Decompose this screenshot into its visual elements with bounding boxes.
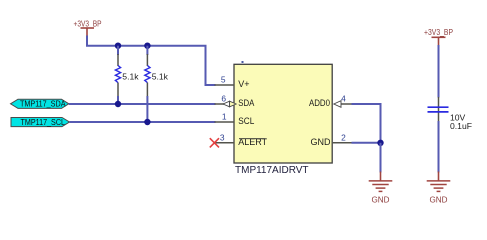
svg-text:1: 1 bbox=[222, 112, 227, 122]
pin 4 ADD0 bbox=[309, 94, 352, 109]
wire GND pin to junction bbox=[352, 142, 381, 144]
svg-text:GND: GND bbox=[430, 195, 448, 205]
wire SDA net to pin 6 bbox=[69, 103, 216, 105]
wire capacitor down to ground bbox=[438, 121, 440, 173]
wire +3V3_BP right down to capacitor bbox=[438, 45, 440, 98]
wire SCL net to pin 1 bbox=[70, 121, 216, 123]
svg-text:TMP117_SDA: TMP117_SDA bbox=[20, 99, 66, 109]
wire R1 top lead stub bbox=[117, 46, 119, 55]
pin 3 ALERT bbox=[215, 133, 268, 148]
junction ADD0/GND bbox=[377, 140, 383, 146]
svg-text:GND: GND bbox=[372, 195, 390, 205]
wire top rail to V+ bbox=[86, 46, 216, 85]
power +3V3_BP left bbox=[74, 19, 102, 36]
ground GND right bbox=[427, 172, 451, 205]
svg-text:GND: GND bbox=[311, 137, 332, 147]
svg-text:SCL: SCL bbox=[238, 116, 254, 126]
no-connect X on ALERT pin bbox=[210, 138, 219, 147]
svg-text:3: 3 bbox=[220, 133, 225, 143]
junction SDA / R1 bbox=[115, 101, 121, 107]
resistor R2 5.1k bbox=[145, 54, 169, 96]
svg-text:TMP117AIDRVT: TMP117AIDRVT bbox=[235, 165, 309, 176]
wire from +3V3_BP down to top rail bbox=[86, 36, 88, 46]
ground GND left bbox=[369, 172, 393, 205]
wire ADD0 to junction bbox=[352, 104, 381, 144]
junction on top rail at R2 bbox=[144, 43, 150, 49]
IC U1 TMP117AIDRVT body bbox=[234, 61, 332, 176]
svg-text:5: 5 bbox=[221, 75, 226, 85]
svg-text:V+: V+ bbox=[238, 79, 249, 89]
pin 1 SCL bbox=[215, 112, 255, 127]
svg-text:TMP117_SCL: TMP117_SCL bbox=[21, 117, 66, 127]
capacitor C1 0.1uF 10V bbox=[428, 97, 472, 131]
wire R1 bottom to SDA net bbox=[117, 96, 119, 104]
net label TMP117_SDA bbox=[11, 99, 69, 109]
svg-text:2: 2 bbox=[341, 133, 346, 143]
svg-text:4: 4 bbox=[341, 94, 346, 104]
svg-text:+3V3_BP: +3V3_BP bbox=[74, 19, 102, 29]
power +3V3_BP right bbox=[424, 27, 453, 46]
resistor R1 5.1k bbox=[115, 54, 139, 96]
svg-text:6: 6 bbox=[221, 94, 226, 104]
svg-text:SDA: SDA bbox=[238, 98, 254, 108]
svg-text:5.1k: 5.1k bbox=[122, 71, 139, 81]
pin 5 V+ bbox=[215, 75, 250, 90]
junction on top rail at R1 bbox=[115, 43, 121, 49]
svg-text:5.1k: 5.1k bbox=[152, 71, 169, 81]
wire junction down to ground bbox=[380, 143, 382, 173]
svg-text:+3V3_BP: +3V3_BP bbox=[424, 27, 453, 37]
wire R2 top lead stub bbox=[146, 46, 148, 55]
svg-text:0.1uF: 0.1uF bbox=[450, 121, 472, 131]
svg-text:ADD0: ADD0 bbox=[309, 98, 330, 108]
wire R2 bottom to SCL net bbox=[146, 96, 148, 122]
pin 2 GND bbox=[311, 133, 352, 148]
pin 6 SDA bbox=[215, 94, 255, 109]
net label TMP117_SCL bbox=[11, 117, 70, 127]
junction SCL / R2 bbox=[144, 119, 150, 125]
